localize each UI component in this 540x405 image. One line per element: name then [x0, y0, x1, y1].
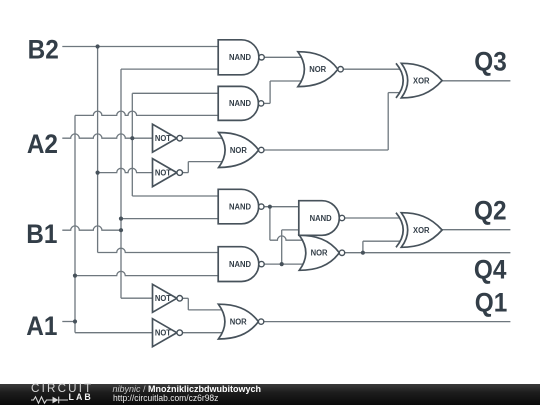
wire: NAND4 output to NOR3 bottom input: [264, 263, 303, 265]
wire: branch up from NAND4 output: [281, 230, 283, 264]
wire: A1 input line to A1 bus: [62, 321, 75, 323]
logo resistor symbol: [31, 396, 53, 402]
junction: B2 bus / NOT2 input: [96, 171, 100, 175]
wire: NAND1 output to NOR1 top input: [264, 56, 302, 58]
junction: A2 line / A2 bus: [130, 136, 134, 140]
NAND gate U8 (A2,B1): [218, 189, 264, 224]
wire: into NOR1 bottom input: [270, 80, 302, 82]
svg-text:A2: A2: [27, 130, 58, 159]
wire: into XOR1 bottom input: [388, 92, 400, 94]
wire: NOR4 output to Q1: [264, 321, 511, 323]
wire: NAND4 bottom input from A1 bus: [75, 271, 218, 275]
junction: NAND4 output branch: [280, 262, 284, 266]
NOT gate U14 (A1): [153, 319, 183, 347]
svg-text:NOR: NOR: [230, 146, 247, 155]
svg-text:XOR: XOR: [413, 226, 430, 235]
svg-text:NOT: NOT: [155, 168, 171, 177]
wire: NOT3 output jog down: [187, 298, 189, 310]
svg-text:NAND: NAND: [229, 99, 251, 108]
svg-text:NOR: NOR: [309, 65, 326, 74]
NOR gate U11 (Q4): [299, 235, 344, 270]
wire: NAND3 top input from A2 bus: [132, 195, 218, 197]
svg-text:Q2: Q2: [474, 197, 507, 226]
junction: NAND3 output branch: [268, 205, 272, 209]
NOT gate U4 (A2): [153, 124, 183, 152]
XOR gate U7 (Q3): [396, 63, 442, 98]
wire: into NOR3 top input: [270, 236, 304, 240]
wire: NOR2 output run right: [264, 149, 388, 151]
wire: vertical bus A1 (x=75): [74, 115, 76, 332]
svg-text:A1: A1: [26, 312, 57, 341]
wire: B1 input line to B1 bus: [62, 226, 121, 230]
svg-text:NOR: NOR: [311, 248, 328, 257]
junction: B1 line / B1 bus: [119, 228, 123, 232]
wire: NOR3 output to Q4: [345, 252, 511, 254]
svg-text:Q1: Q1: [475, 288, 508, 317]
wire: XOR2 output to Q2: [442, 229, 510, 231]
wire: into NOR2 bottom input: [188, 161, 223, 163]
wire: riser to XOR1 bottom input: [387, 93, 389, 150]
junction: NOR3 output / XOR2 branch: [361, 251, 365, 255]
wire: B2 input line to NAND1 top input: [62, 46, 218, 48]
wire: vertical bus B1 (x=121): [120, 69, 122, 298]
NAND gate U9 (B2,A1): [218, 247, 264, 282]
svg-text:NOT: NOT: [155, 328, 171, 337]
wire: riser to XOR2 bottom input: [362, 241, 364, 253]
svg-text:NOR: NOR: [230, 317, 247, 326]
NOR gate U15 (Q1): [218, 304, 263, 339]
wire: NOT2 input from B2 bus: [98, 168, 153, 172]
wire: NAND2 top input from A2 bus: [132, 92, 218, 94]
wire: NAND2 bottom input from A1 bus: [75, 111, 218, 115]
wire: vertical bus A2 (x=132.3): [131, 93, 133, 196]
junction: A1 line / A1 bus: [73, 319, 77, 323]
svg-text:Q3: Q3: [474, 48, 507, 77]
NOT gate U5 (B2): [153, 159, 183, 187]
wire: branch down from NAND3 output: [269, 207, 271, 241]
CircuitLab logo: [31, 384, 93, 404]
svg-text:B1: B1: [26, 220, 57, 249]
svg-text:NOT: NOT: [155, 294, 171, 303]
NAND gate U1 (B2,B1): [218, 40, 264, 75]
junction: B1 bus / NAND3 bottom input: [119, 217, 123, 221]
credits text: [113, 385, 262, 404]
XOR gate U12 (Q2): [396, 213, 442, 248]
svg-text:NOT: NOT: [155, 134, 171, 143]
wire: NOT3 output stub: [183, 297, 189, 299]
svg-text:NAND: NAND: [229, 53, 251, 62]
NAND gate U2 (A2,A1): [218, 86, 264, 120]
wire: NOT4 input from A1 bus: [75, 332, 153, 334]
wire: into NOR4 top input: [188, 309, 223, 311]
wire: NOT2 output stub: [183, 172, 189, 174]
svg-text:Q4: Q4: [474, 256, 507, 285]
logo diode arrow: [53, 396, 59, 403]
footer bar: [0, 384, 540, 405]
wire: into XOR2 bottom input: [363, 240, 400, 242]
NOT gate U13 (B1): [153, 284, 183, 312]
junction: A1 bus / NAND4 bottom input: [73, 274, 77, 278]
wire: NOT3 input from B1 bus: [121, 297, 153, 299]
wire: XOR1 output to Q3: [442, 80, 510, 82]
wire: NAND3 output to NAND5 top input: [264, 206, 299, 208]
wire: NAND1 bottom input from B1 bus: [121, 68, 218, 70]
wire: NAND2 output stub: [264, 102, 270, 104]
NOR gate U6: [219, 133, 264, 168]
svg-text:NAND: NAND: [310, 214, 332, 223]
wire: NAND2 output jog up: [269, 81, 271, 103]
wire: NOT4 output to NOR4 bottom input: [183, 332, 223, 334]
NOR gate U3: [298, 52, 343, 87]
wire: NAND3 bottom input from B1 bus: [121, 218, 218, 220]
svg-text:NAND: NAND: [229, 260, 251, 269]
svg-text:NAND: NAND: [229, 202, 251, 211]
svg-text:XOR: XOR: [413, 76, 430, 85]
wire: A2 input line to NOT1: [62, 134, 152, 138]
junction: B2 line / B2 bus: [96, 44, 100, 48]
svg-text:B2: B2: [28, 36, 59, 65]
wire: into NAND5 bottom input: [282, 229, 299, 231]
NAND gate U10: [299, 201, 345, 236]
wire: NAND5 output to XOR2 top input: [345, 217, 400, 219]
wire: NOT1 output to NOR2 top input: [183, 137, 223, 139]
wire: NOR1 output to XOR1 top input: [344, 68, 401, 70]
wire: NOT2 output jog up: [187, 162, 189, 173]
wire: NAND4 top input from B2 bus: [98, 248, 219, 252]
wire: vertical bus B2 (x=97.6): [97, 47, 99, 253]
